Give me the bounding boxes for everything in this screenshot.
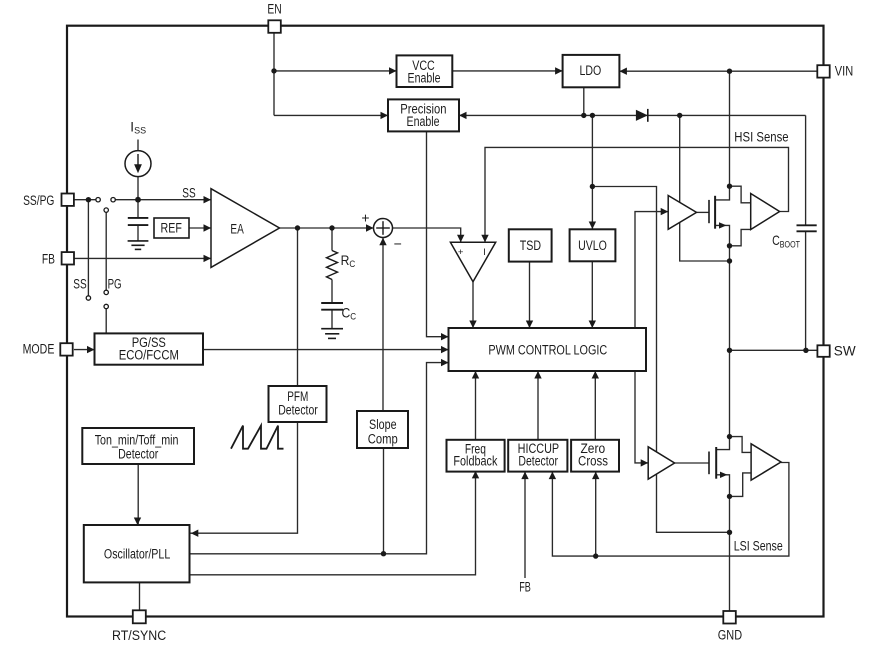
pin VIN (817, 65, 829, 77)
svg-text:ISS: ISS (130, 119, 146, 135)
capacitor Cc (321, 302, 343, 304)
arrow into Precision Enable left (381, 112, 389, 119)
junction HS driver supply (727, 258, 732, 263)
wire FB pin to EA (74, 257, 211, 259)
arrow LSI into Zero Cross (592, 472, 599, 480)
block PWM CONTROL LOGIC (449, 328, 647, 371)
wire HICCUP to PWM logic (537, 371, 539, 440)
arrow into PG/SS block (87, 346, 95, 353)
junction EN branch (271, 68, 276, 73)
wire LDO node to UVLO (591, 115, 593, 229)
label capacitor Cc (342, 305, 357, 322)
capacitor CBOOT (797, 224, 817, 226)
svg-text:Oscillator/PLL: Oscillator/PLL (104, 546, 171, 561)
wire PG switch leg upper (105, 212, 107, 290)
wire VIN to LDO (619, 70, 817, 72)
summing junction (374, 219, 393, 238)
arrow TSD to PWM (526, 321, 533, 329)
pin SS/PG (62, 194, 74, 206)
wire LS source to GND (716, 475, 729, 611)
svg-text:HSI Sense: HSI Sense (734, 130, 788, 145)
svg-text:+: + (458, 247, 464, 258)
sawtooth ramp symbol (231, 426, 284, 449)
svg-text:Ton_min/Toff_min: Ton_min/Toff_min (95, 433, 179, 448)
wire UVLO to PWM logic (591, 261, 593, 328)
svg-text:CC: CC (342, 305, 357, 322)
junction LS source sense (727, 494, 732, 499)
block Precision Enable (388, 99, 459, 131)
svg-text:Enable: Enable (408, 70, 441, 85)
wire oscillator to Freq Foldback (190, 471, 476, 575)
svg-text:Comp: Comp (368, 432, 398, 447)
wire Cc to ground (331, 310, 333, 329)
svg-text:GND: GND (718, 628, 743, 643)
block UVLO (570, 229, 616, 261)
junction HS drain sense (727, 184, 732, 189)
arrow UVLO to PWM (589, 321, 596, 329)
junction CBOOT SW (803, 348, 808, 353)
junction UVLO branch (590, 184, 595, 189)
pin GND (723, 611, 736, 624)
wire UVLO node to LS driver supply (592, 187, 729, 533)
wire FB to HICCUP detector (524, 472, 526, 578)
junction HS source sense (727, 243, 732, 248)
wire CBOOT bottom to SW (805, 231, 807, 350)
svg-text:Detector: Detector (518, 454, 558, 469)
svg-text:Detector: Detector (118, 447, 159, 462)
arrow into PWM left 2 (441, 346, 449, 353)
arrow into PWM left 1 (441, 333, 449, 340)
svg-text:REF: REF (161, 220, 182, 235)
block PFM Detector (269, 386, 327, 422)
switch contact SS/PG horizontal b (111, 198, 115, 202)
switch contact PG bottom (104, 304, 108, 308)
svg-text:Slope: Slope (369, 417, 397, 432)
junction SS/PG pin branch (86, 197, 91, 202)
svg-text:Detector: Detector (278, 403, 318, 418)
wire Ton detector to oscillator (137, 464, 139, 525)
svg-text:TSD: TSD (520, 238, 541, 253)
block VCC Enable (397, 55, 453, 87)
pin MODE (60, 343, 72, 355)
label resistor Rc (341, 252, 356, 269)
transistor LS source arrow (720, 472, 728, 478)
block HICCUP Detector (508, 440, 567, 472)
svg-text:UVLO: UVLO (578, 238, 607, 253)
junction LSI zero cross (593, 553, 598, 558)
wire EN to Precision Enable (274, 114, 388, 116)
junction BOOT node (677, 113, 682, 118)
wire SW node to SW pin (730, 349, 818, 351)
transistor HS source arrow (719, 222, 727, 228)
amplifier LS current sense (751, 444, 781, 480)
arrow Freq Foldback to PWM (472, 371, 479, 379)
comparator PWM (450, 242, 495, 281)
arrow into EA ss input (204, 196, 212, 203)
wire LS drain sense hook (730, 437, 752, 453)
switch contact PG middle (104, 290, 108, 294)
svg-text:RC: RC (341, 252, 356, 269)
label capacitor CBOOT (772, 233, 800, 250)
switch contact SS bottom (86, 296, 90, 300)
block Ton_min/Toff_min Detector (82, 428, 194, 464)
wire SS node to EA (138, 199, 211, 201)
wire VIN rail to HS drain (715, 71, 729, 200)
svg-text:Foldback: Foldback (453, 454, 497, 469)
wire Precision Enable to PWM logic (427, 131, 449, 336)
capacitor soft-start (128, 217, 149, 219)
svg-text:SS: SS (182, 186, 195, 201)
arrow slope comp into summing (379, 238, 386, 246)
wire LDO bottom (583, 87, 585, 115)
svg-text:LSI Sense: LSI Sense (734, 539, 783, 554)
svg-text:CBOOT: CBOOT (772, 233, 800, 250)
wire Freq Foldback to PWM logic (475, 371, 477, 440)
junction VIN rail (727, 69, 732, 74)
current source Iss (125, 151, 151, 177)
junction COMP Rc branch (329, 225, 334, 230)
ground soft-start cap (128, 241, 149, 250)
diode bootstrap (636, 110, 648, 121)
junction UVLO feed (590, 113, 595, 118)
resistor Rc (327, 251, 338, 280)
arrow into UVLO top (589, 222, 596, 230)
wire HS driver to gate (697, 211, 710, 213)
arrow into LDO right (619, 68, 627, 75)
svg-text:−: − (394, 235, 402, 251)
block Slope Comp (357, 411, 408, 448)
junction LS driver supply (727, 530, 732, 535)
wire oscillator to RT/SYNC pin (139, 582, 141, 610)
switch contact PG top (104, 208, 108, 212)
wire HS source to SW rail (715, 225, 729, 449)
wire HS source sense hook (730, 229, 751, 245)
pin EN (268, 20, 281, 33)
wire REF to EA (189, 227, 211, 229)
wire EN drop (273, 33, 275, 116)
transistor HS channel bar (714, 196, 716, 229)
arrow into comparator plus (457, 235, 464, 243)
wire Iss stem (137, 140, 139, 151)
ground Cc (321, 329, 343, 339)
svg-text:+: + (361, 210, 369, 226)
wire BOOT to CBOOT top (805, 115, 807, 225)
junction LDO output (581, 113, 586, 118)
block TSD (509, 229, 552, 261)
transistor HS gate bar (708, 200, 710, 223)
wire HSI sense feedback (485, 147, 789, 242)
wire SS/PG pin to switch (74, 199, 96, 201)
wire BOOT node to HS driver supply (680, 115, 730, 261)
wire HS drain sense hook (730, 186, 751, 203)
block LDO (563, 55, 620, 87)
svg-text:EA: EA (230, 222, 243, 237)
arrow LSI into HICCUP (549, 472, 556, 480)
block Oscillator/PLL (84, 525, 190, 582)
arrow comparator to PWM (469, 321, 476, 329)
op-amp EA (211, 189, 280, 268)
svg-text:SS: SS (73, 277, 86, 292)
svg-text:I: I (483, 247, 486, 258)
wire PG/SS block to PWM logic (203, 349, 449, 351)
svg-text:RT/SYNC: RT/SYNC (112, 628, 166, 643)
wire VCC Enable to LDO (452, 70, 562, 72)
wire comparator output to PWM logic (472, 282, 474, 328)
pin FB (62, 252, 74, 264)
wire COMP node to Rc (331, 228, 333, 251)
wire BOOT rail to Precision Enable (459, 114, 806, 116)
arrow into EA fb input (204, 255, 212, 262)
arrow oscillator into Freq Foldback (472, 471, 479, 479)
wire summing node to PWM comparator (393, 228, 461, 242)
svg-text:SS/PG: SS/PG (23, 193, 54, 208)
wire LSI sense to Zero Cross (595, 472, 597, 556)
IC boundary (67, 26, 824, 617)
arrow into PWM left 3 (441, 359, 449, 366)
wire Rc to Cc (331, 280, 333, 303)
pin RT/SYNC (133, 610, 146, 623)
block Freq Foldback (447, 440, 505, 472)
arrow FB into HICCUP (521, 472, 528, 480)
buffer HS gate driver (668, 196, 696, 230)
amplifier HS current sense (751, 194, 780, 230)
svg-text:MODE: MODE (23, 342, 55, 357)
block Zero Cross (571, 440, 619, 472)
wire switch to SS node (115, 199, 138, 201)
svg-text:VIN: VIN (835, 64, 853, 79)
switch contact SS/PG horizontal a (96, 198, 100, 202)
arrow Zero Cross to PWM (592, 371, 599, 379)
arrow into VCC Enable (389, 67, 397, 74)
arrow into LDO left (555, 67, 563, 74)
svg-text:Cross: Cross (578, 454, 608, 469)
arrow into LS driver (641, 459, 649, 466)
buffer LS gate driver (648, 447, 674, 479)
wire SS switch leg (87, 200, 89, 296)
wire PWM gate drive bus (635, 212, 668, 463)
arrow into HS driver (661, 208, 669, 215)
wire soft-start cap to ground (137, 225, 139, 241)
arrow Ton detector into oscillator (134, 518, 141, 526)
transistor LS channel bar (715, 447, 717, 479)
svg-text:FB: FB (519, 580, 531, 595)
wire EA output to summing node (280, 227, 374, 229)
wire Zero Cross to PWM logic (594, 371, 596, 440)
svg-text:LDO: LDO (580, 63, 602, 78)
node SS (135, 197, 141, 203)
wire TSD to PWM logic (529, 261, 531, 328)
wire LS source sense hook (730, 473, 752, 497)
arrow into Precision Enable right (459, 112, 467, 119)
wire slope comp to summing node (382, 238, 384, 411)
wire LS driver to gate (675, 462, 709, 464)
wire LSI sense feedback (552, 463, 789, 557)
svg-text:SW: SW (834, 344, 856, 359)
block REF (154, 218, 189, 238)
wire PG switch leg lower (105, 309, 107, 334)
junction SW node (727, 348, 732, 353)
svg-text:FB: FB (42, 252, 55, 267)
wire SS node to soft-start cap (137, 200, 139, 218)
junction EA output (295, 225, 300, 230)
wire slope comp to oscillator line (383, 448, 385, 554)
svg-text:PWM CONTROL LOGIC: PWM CONTROL LOGIC (488, 342, 607, 357)
arrow into EA ref input (204, 224, 212, 231)
arrow into oscillator from PFM (191, 530, 199, 537)
wire Iss to SS node (137, 177, 139, 200)
wire EN to VCC Enable (274, 70, 397, 72)
transistor LS gate bar (708, 452, 710, 475)
wire MODE to PG/SS block (74, 349, 95, 351)
block PG/SS ECO/FCCM (95, 333, 204, 364)
junction slope comp oscillator (381, 551, 386, 556)
svg-text:Enable: Enable (407, 114, 440, 129)
junction LS drain sense (727, 434, 732, 439)
pin SW (817, 345, 829, 357)
wire oscillator to PWM logic (190, 363, 449, 554)
arrow HICCUP to PWM (534, 371, 541, 379)
svg-text:EN: EN (267, 2, 281, 17)
wire EA output to PFM and oscillator (190, 228, 298, 533)
svg-text:PG: PG (108, 277, 122, 292)
svg-text:ECO/FCCM: ECO/FCCM (119, 348, 179, 363)
arrow into summing node (366, 224, 374, 231)
arrow into comparator current (481, 235, 488, 243)
